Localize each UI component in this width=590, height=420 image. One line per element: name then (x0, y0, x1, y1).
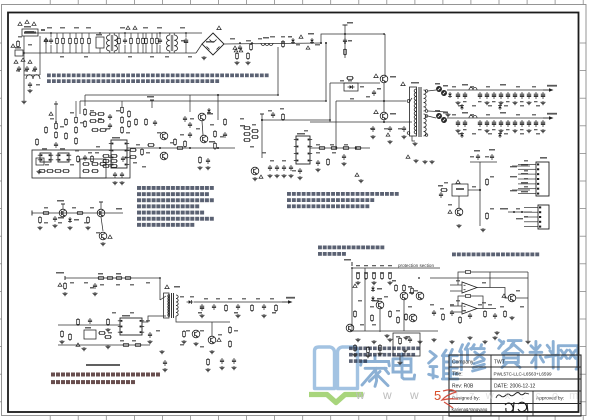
resistor R80 (243, 139, 251, 142)
title block outline (449, 355, 581, 416)
resistor R47 (110, 155, 118, 158)
capacitor C24 (262, 304, 266, 310)
capacitor C5 (28, 82, 32, 88)
warning triangle at AC inlet (18, 22, 22, 25)
warning triangle C6 (233, 46, 237, 49)
resistor RP24 (367, 346, 370, 354)
capacitor CP1 (432, 310, 436, 316)
rectifier D8 (436, 113, 441, 118)
annotation text about IC1 5V standby supply (51, 373, 160, 385)
12V rail label (462, 84, 468, 86)
ground G5 (246, 61, 251, 65)
capacitor C32 (298, 168, 302, 174)
warning triangle Q13 (108, 235, 112, 238)
MOSFET QW9 (380, 75, 388, 83)
resistor R15 (75, 116, 78, 124)
ground G50 (148, 340, 153, 344)
VCC2 label (147, 96, 154, 98)
resistor R30 (91, 163, 99, 166)
warning triangle cluster A (14, 60, 18, 63)
zener Z28 (371, 296, 375, 302)
capacitor C21 (200, 304, 204, 311)
main transformer T1 secondary lower (424, 114, 427, 136)
resistor R46 (102, 155, 110, 158)
RP3 label (372, 265, 376, 266)
resistor R60 (87, 216, 90, 224)
ground G34 (282, 174, 287, 178)
wire 9VC stub (62, 204, 64, 209)
VCC stub bar (54, 103, 58, 105)
C33 label (377, 88, 381, 90)
wire Q12 drop (101, 217, 103, 231)
ground G42 center tap (446, 113, 451, 117)
resistor R63 (115, 277, 123, 280)
rectifier D5 (436, 86, 441, 91)
ground G12 (53, 224, 58, 228)
transistor Q15 (455, 208, 463, 216)
ground G53 (316, 168, 321, 172)
resistor RP8 (389, 310, 392, 318)
resistor R94 (156, 37, 159, 45)
svg-text:TWT: TWT (494, 360, 505, 366)
annotation text about IC4 overcurrent protect (452, 253, 539, 257)
watermark book icon base ribbon (309, 395, 363, 403)
wire regulator top rail (470, 161, 497, 163)
ground G13 (68, 226, 73, 230)
annotation text about CPU standby signal (349, 347, 420, 363)
reference box U3 (36, 158, 44, 165)
capacitor C30 (282, 165, 286, 171)
RP4 label (380, 265, 384, 266)
resistor RP10 (405, 313, 408, 321)
feedback resistor RF2 (464, 295, 472, 298)
RP1 label (356, 265, 360, 266)
node junction +B bus (344, 33, 346, 35)
ground G26 (194, 342, 199, 346)
resistor R106 (183, 330, 186, 338)
resistor R56 (36, 138, 39, 146)
C50 stub (45, 42, 47, 53)
wire protection inner drop (364, 268, 366, 331)
wire loopA drop (79, 101, 81, 114)
T2 label (174, 286, 180, 288)
ground G23 (236, 314, 241, 318)
warning triangle D1a (234, 49, 238, 52)
12V rail label b (500, 84, 506, 86)
standby power IC1 (118, 318, 144, 335)
resistor R66 (107, 318, 110, 326)
comparator IC4a (462, 282, 477, 293)
resistor R103 (77, 318, 80, 326)
connector CN1 (530, 162, 549, 196)
ground G27 (160, 350, 165, 354)
resistor R45 (91, 155, 94, 163)
watermark character dian (393, 354, 415, 379)
resistor R72 (251, 304, 254, 312)
node junction J11 (277, 94, 279, 96)
resistor R7 (145, 37, 148, 45)
ground GP16 (403, 349, 408, 353)
resistor RP14 (504, 310, 507, 318)
resistor R57 (42, 212, 50, 215)
capacitor C26 (232, 358, 236, 364)
ground GP6 (388, 338, 393, 342)
resistor R79 (243, 133, 251, 136)
node junction J10 (325, 100, 327, 102)
capacitor C33 (372, 90, 376, 96)
ground G30 (232, 366, 237, 370)
CX5 label (181, 40, 185, 42)
wire x336 link (335, 122, 337, 148)
resistor R26 (121, 126, 124, 134)
wire IC1 aux wire (58, 324, 120, 326)
resistor R74 (229, 326, 232, 334)
ground G12V_0 (456, 101, 461, 105)
svg-text:Title:: Title: (452, 372, 463, 378)
node junction J20 (479, 189, 481, 191)
resistor R22 (89, 120, 97, 123)
node junction reg (479, 189, 481, 191)
capacitor C27 (271, 112, 275, 118)
bridge label (206, 41, 214, 43)
capacitor C6 (238, 45, 242, 51)
resistor R91 (75, 37, 78, 45)
wire 24V rail (447, 117, 549, 119)
resistor R68 (69, 333, 72, 341)
resistor R20 (89, 113, 97, 116)
wire CN2 wire (508, 211, 532, 213)
24V rail label b (500, 112, 506, 114)
resistor R104 (122, 344, 130, 347)
warning triangle at bridge (217, 26, 221, 30)
watermark character jia (361, 357, 390, 387)
ground GP9 (432, 338, 437, 342)
resistor R5 (130, 37, 133, 45)
output capacitor C12V_0 (456, 92, 460, 99)
resistor RP1 (357, 272, 360, 280)
resistor R34 (129, 149, 137, 152)
standby transformer T2 primary winding (168, 295, 170, 317)
wire HB mid left drop (335, 101, 337, 122)
node junction J2 (99, 32, 101, 34)
wire VCC stub (55, 104, 57, 122)
capacitor CX5 (184, 38, 188, 45)
compensation network box (80, 159, 106, 178)
resistor RP6 (354, 310, 357, 318)
wire PFC loop outer (80, 43, 326, 101)
resistor R100 (135, 118, 138, 126)
output capacitor C24V_0 (456, 120, 460, 127)
resistor R107 (327, 158, 330, 166)
resistor R82 (251, 136, 259, 139)
resistor RP12 (459, 316, 462, 324)
rectifier D6 (441, 90, 446, 95)
ground GP2 (372, 281, 377, 285)
filter inductor L2 (469, 88, 477, 90)
wire T2 primary top lead (160, 296, 166, 300)
wire PFC loop inner (85, 47, 278, 95)
wire CN1 wire 1 (512, 165, 530, 167)
QP5 label (308, 33, 314, 35)
IC2 label (112, 137, 120, 139)
IC9 label (85, 327, 91, 329)
warning triangle above R5 (126, 26, 130, 29)
ground G18 (106, 328, 111, 332)
standby input label (56, 272, 64, 274)
capacitor C15 (188, 122, 192, 128)
output capacitor C12V_5 (492, 92, 496, 99)
C24V_3 label (478, 129, 482, 130)
resistor R95 (45, 126, 48, 134)
border right zone ticks (579, 43, 586, 402)
CN1 pin label b (521, 173, 528, 174)
ground G24V_12 (541, 129, 546, 133)
standby transformer T2 secondary (176, 295, 178, 316)
wire 12V rail (447, 89, 549, 91)
R63 label (116, 273, 121, 275)
C12V_7 label (506, 101, 510, 102)
resistor R49 (110, 160, 118, 163)
MOSFET QW10 (380, 112, 388, 120)
title block signature chinese (505, 402, 528, 413)
CX0 label (15, 47, 21, 49)
resistor R61 (97, 277, 105, 280)
diode D12 (460, 132, 464, 138)
watermark character zi (499, 340, 523, 367)
resistor R42 (214, 142, 217, 150)
standby interface outline (32, 150, 130, 178)
regulator U2 (452, 184, 468, 196)
annotation text about IC2 PFC circuit (47, 74, 269, 84)
wire segment above IC1 note (86, 364, 120, 366)
cx2 stub (99, 48, 101, 53)
R61 label (98, 273, 103, 275)
fuse F1 label (25, 31, 34, 32)
resistor R71 (225, 304, 228, 312)
wire left drop wire (23, 53, 25, 100)
resistor R40 (184, 140, 187, 148)
ground G54 (342, 162, 347, 166)
protection terminal bar (351, 262, 353, 266)
watermark book icon right page (338, 347, 358, 389)
capacitor C53 (223, 132, 227, 138)
ground G8 (198, 166, 203, 170)
+B label (347, 22, 353, 24)
MOSFET QP5 body (310, 38, 314, 44)
ground G12V_6 (499, 101, 504, 105)
capacitor CP2 (450, 310, 454, 316)
resistor R31 (99, 163, 107, 166)
ground G16 (63, 292, 68, 296)
D8 label (435, 110, 440, 112)
ground GP17 (398, 361, 403, 365)
snubber cap C7 (250, 43, 253, 51)
optocoupler transistor IC6b (160, 152, 168, 160)
resistor R29 (82, 163, 90, 166)
node junction J0 (23, 52, 25, 54)
ground G14 (86, 226, 91, 230)
D5 label (435, 83, 440, 85)
resistor R70 (104, 336, 112, 339)
ground G24 (262, 314, 267, 318)
ground G12V_4 (485, 101, 490, 105)
resistor R27 (128, 110, 131, 118)
resistor RP15 (399, 337, 402, 345)
connector CN2 (532, 205, 549, 229)
wire IC3 rail (262, 119, 330, 121)
resistor R52 (38, 170, 46, 173)
wire half-bridge left rail (329, 83, 331, 122)
capacitor C42 (439, 192, 443, 198)
ground G2 (22, 100, 27, 104)
warning triangle Z24 (353, 284, 357, 287)
ground G17 (93, 292, 98, 296)
red pen scribble (442, 390, 458, 408)
node junction J3 (124, 32, 126, 34)
output capacitor C12V_8 (513, 92, 517, 99)
warning triangle QW9 (374, 74, 378, 78)
resonant cap C34 (371, 126, 375, 132)
wire standby top rail (65, 277, 160, 279)
5V output arrow (282, 297, 295, 304)
capacitor C29 (275, 165, 279, 171)
output capacitor C12V_3 (478, 92, 482, 99)
stub bar b (99, 201, 103, 203)
wire CN1 wire 2 (512, 189, 530, 191)
R87 label (438, 185, 443, 187)
wire regulator right rail (479, 162, 481, 226)
node junction J7 (251, 42, 253, 44)
common-mode choke LF1 (106, 33, 117, 53)
resistor R4 (88, 37, 91, 45)
transistor Q16 (376, 301, 384, 309)
diode D13 (498, 132, 502, 138)
output capacitor C24V_8 (513, 120, 517, 127)
optocoupler IC10 (192, 330, 200, 338)
border left zone ticks (0, 43, 2, 402)
protection sub box (393, 333, 420, 356)
C23 label (234, 312, 238, 314)
resistor R73 (275, 304, 278, 312)
node junction CN2 b (521, 211, 523, 213)
ground G24V_0 (456, 129, 461, 133)
ground G47 (414, 159, 419, 163)
node junction out bus (355, 147, 357, 149)
svg-text:protection section: protection section (398, 263, 434, 268)
wire QW10 source drop (383, 120, 385, 122)
R73 label (272, 312, 276, 314)
node junction J1 (50, 32, 52, 34)
output capacitor C12V_11 (534, 92, 538, 99)
wire VCC2 stub (151, 100, 153, 108)
wire comparator top link (490, 271, 528, 273)
warning triangle near IC9 (76, 343, 80, 346)
RP5 label (388, 265, 392, 266)
T1 label (411, 82, 419, 84)
wire IC4a in- (450, 290, 462, 292)
warning triangle TL431 (217, 338, 221, 341)
CN1 pin label a (521, 164, 528, 165)
warning triangle cluster B (21, 58, 25, 61)
node junction J6 (239, 42, 241, 44)
warning triangle T2 (165, 285, 169, 289)
ground GP13 (493, 336, 498, 340)
ground G22 (200, 314, 205, 318)
wire T2 primary bottom to IC1 (142, 316, 166, 322)
ground GP18 (385, 334, 390, 338)
standby transformer T2 core (171, 293, 173, 318)
resistor R96 (65, 118, 68, 126)
resistor RP7 (371, 314, 374, 322)
resistor R33 (91, 170, 99, 173)
wire +B stub (344, 25, 346, 58)
transistor Q17 (400, 292, 408, 300)
watermark character wei (429, 350, 458, 379)
ground G3 under bridge (202, 56, 207, 60)
transistor Q19 (346, 324, 354, 332)
wire IC1 aux wire 2 (58, 344, 112, 346)
transistor Q13 (99, 232, 107, 240)
ground G36 (298, 176, 303, 180)
diode D11 (498, 104, 502, 110)
C12V_11 label (534, 101, 538, 102)
C24V_9 label (520, 129, 524, 130)
svg-text:Rev: R0B: Rev: R0B (452, 384, 474, 390)
ground G44 (457, 224, 462, 228)
node junction J4 (159, 32, 161, 34)
resistor R25 (121, 116, 124, 124)
resistor R55 (62, 170, 70, 173)
wire IC4a feedback out (472, 272, 490, 288)
resistor R59 (39, 216, 42, 224)
resistor RP25 (379, 344, 382, 352)
ground G12V_12 (541, 101, 546, 105)
wire gate wire QW9 (330, 82, 380, 84)
wire center tap lead (428, 111, 448, 112)
VCC2 stub bar (150, 99, 154, 101)
annotation text about Z24 Z28 overvoltage detect (318, 246, 384, 256)
watermark character xiu (460, 344, 485, 371)
component value labels (16, 27, 540, 348)
warning triangle T2 at AC inlet (25, 20, 29, 23)
resistor R53 (46, 170, 54, 173)
X-cap CX1 (49, 38, 53, 44)
wire U2 to Q15 (458, 196, 460, 208)
optocoupler IC9 (84, 330, 96, 339)
resistor R1 (62, 37, 65, 45)
L1 label (263, 37, 269, 39)
warning triangle C35 (386, 133, 390, 136)
9VC stub bar (61, 203, 65, 205)
resistor R51 (110, 165, 118, 168)
ground GP19 (495, 331, 500, 335)
resistor R38 (174, 138, 177, 146)
node junction J9 (344, 42, 346, 44)
driver transistor QP4 (200, 135, 208, 143)
node junction IC3 rail (261, 119, 263, 121)
LLC controller IC3 (294, 136, 312, 164)
resistor R76 (207, 358, 210, 366)
transistor Q14 (251, 167, 259, 175)
wire Q20 out (516, 297, 528, 299)
node junction drive bus b (189, 147, 191, 149)
CN1 pin label g (510, 190, 517, 191)
diode D06 (68, 217, 72, 223)
ground G46 (430, 160, 435, 164)
wire wire w218 ext (217, 112, 219, 120)
output capacitor C12V_10 (527, 92, 531, 99)
ground G39 (388, 140, 393, 144)
